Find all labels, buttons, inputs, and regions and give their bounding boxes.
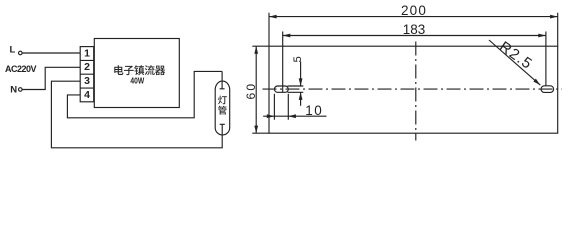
dim 60 extension lines	[252, 46, 269, 133]
lamp label char 管	[218, 106, 227, 115]
dim 183	[283, 35, 546, 37]
svg-text:3: 3	[84, 75, 90, 87]
terminal N	[19, 88, 23, 92]
svg-text:183: 183	[403, 22, 426, 37]
svg-text:5: 5	[292, 56, 304, 62]
svg-text:2: 2	[84, 61, 90, 73]
ballast terminal block pins 1-4	[80, 47, 94, 102]
svg-text:R2.5: R2.5	[496, 38, 536, 73]
svg-text:60: 60	[244, 82, 258, 100]
lamp top filament	[220, 71, 225, 88]
svg-text:10: 10	[305, 103, 323, 118]
lamp bottom filament	[220, 124, 225, 135]
electronic ballast box U1	[94, 39, 179, 108]
wire pin 3 to lamp bottom	[51, 81, 222, 148]
svg-text:AC220V: AC220V	[5, 64, 37, 74]
terminal L	[19, 51, 23, 55]
svg-text:N: N	[10, 85, 17, 96]
leader R2.5	[489, 40, 540, 85]
ballast label char 电	[114, 65, 123, 75]
dim 200 extension lines	[269, 13, 558, 46]
svg-text:1: 1	[84, 47, 90, 59]
wire N to pin 2	[22, 67, 80, 89]
mounting slot right	[541, 86, 554, 93]
vertical centerline	[415, 42, 417, 141]
svg-text:L: L	[10, 45, 16, 56]
mounting slot left	[274, 86, 288, 92]
svg-text:200: 200	[401, 3, 427, 18]
dim 60	[255, 46, 257, 133]
dim 5	[288, 62, 304, 106]
svg-text:40W: 40W	[130, 76, 145, 86]
ballast label char 流	[145, 65, 155, 75]
lamp tube body	[215, 81, 230, 135]
ballast label char 镇	[134, 65, 144, 75]
fluorescent lamp electronic ballast schematic and dimension drawing	[0, 0, 568, 155]
wire L to pin 1	[22, 52, 80, 54]
dim 10 extension lines	[274, 94, 288, 120]
dim 10	[263, 115, 326, 117]
ballast label char 子	[124, 66, 134, 75]
lamp label char 灯	[218, 96, 227, 105]
ballast label char 器	[155, 66, 165, 75]
wire pin 4 to lamp top	[67, 71, 222, 117]
dim 200	[269, 16, 558, 18]
ballast outline top view	[269, 46, 558, 133]
horizontal centerline	[263, 88, 563, 90]
dim 183 extension lines	[283, 32, 546, 93]
svg-text:4: 4	[84, 89, 90, 101]
